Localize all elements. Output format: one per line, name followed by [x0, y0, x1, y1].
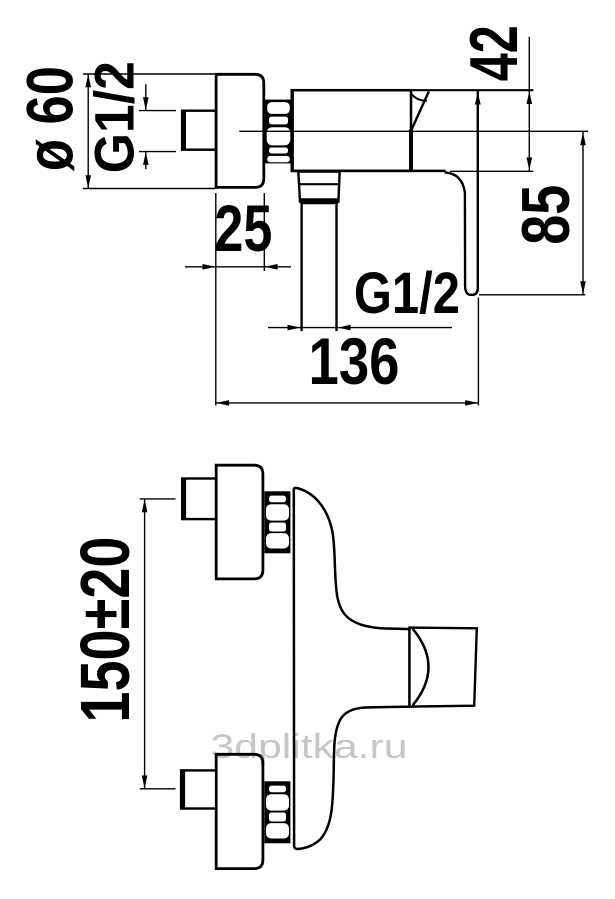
handle (front) — [410, 628, 477, 707]
dim 136 arrow right — [465, 400, 478, 406]
handle lever (side) — [445, 90, 478, 294]
svg-text:G1/2: G1/2 — [83, 61, 146, 173]
handle pivot fillet arc — [411, 93, 427, 101]
outlet nut thick bottom band — [300, 198, 339, 204]
dim 85 line — [582, 132, 584, 295]
outlet pipe left line — [300, 204, 302, 331]
svg-text:G1/2: G1/2 — [354, 261, 460, 326]
dim G1/2 wall arrow down — [143, 97, 149, 110]
wall flange (side) — [216, 74, 264, 187]
handle rear edge arrow mark — [475, 92, 481, 104]
outlet nut division line — [299, 183, 339, 185]
faucet body (side) — [292, 90, 411, 171]
wall flange upper (front) — [216, 465, 263, 579]
svg-text:136: 136 — [309, 324, 400, 398]
dim 25 arrow left — [265, 264, 278, 270]
dim 85 arrow down — [580, 281, 586, 294]
dim 136 extension right — [477, 298, 479, 406]
body left edge thick — [291, 89, 294, 172]
outlet nut (side) — [298, 172, 339, 202]
dim ø60 arrow up — [85, 74, 91, 87]
dim 25 line — [185, 266, 291, 268]
dim 42 arrow up — [527, 91, 533, 104]
wall flange lower (front) — [216, 754, 263, 868]
dim G1/2 wall thread extension top — [139, 110, 176, 112]
handle pivot slant — [412, 92, 429, 130]
body bottom extension line — [450, 170, 533, 172]
dim G1/2 outlet line — [268, 327, 452, 329]
supply stub lower thick left edge — [181, 770, 185, 810]
dim G1/2 wall thread line lower — [145, 152, 147, 170]
connector nut (side) — [264, 100, 292, 164]
svg-text:ø 60: ø 60 — [12, 66, 86, 171]
dim 136 line — [216, 402, 479, 404]
dim 42 line — [528, 37, 530, 171]
dim G1/2 wall arrow up — [143, 152, 149, 165]
handle cap arc (front) — [413, 629, 429, 705]
connector nut upper (front) — [265, 491, 291, 553]
dim 150 extension tick top — [140, 498, 176, 500]
dim G1/2 wall thread line upper — [145, 84, 147, 110]
dim ø60 extension line top — [83, 73, 215, 75]
dim 150 line — [144, 499, 146, 789]
supply stub upper (front) — [182, 479, 216, 520]
supply stub upper thick left edge — [182, 478, 186, 520]
wall supply stub thick left edge — [182, 110, 186, 150]
faucet body (front) — [294, 488, 410, 849]
supply stub lower (front) — [181, 770, 216, 808]
dim G1/2 outlet arrow right — [288, 325, 301, 331]
body right edge thick lower part — [409, 130, 413, 171]
dim 150 extension tick bottom — [140, 788, 176, 790]
dim ø60 line — [87, 74, 89, 189]
svg-text:150±20: 150±20 — [66, 537, 144, 723]
dim G1/2 wall thread extension bottom — [139, 151, 176, 153]
wall supply stub (side) — [182, 111, 216, 150]
dim 42 arrow down — [527, 157, 533, 170]
dim 25 extension line A — [215, 193, 217, 406]
connector nut lower (front) — [265, 781, 291, 843]
svg-text:85: 85 — [508, 185, 584, 245]
dim 85 arrow up — [580, 132, 586, 145]
svg-text:25: 25 — [214, 191, 272, 265]
dim 136 arrow left — [216, 400, 229, 406]
dim ø60 extension line bottom — [83, 188, 215, 190]
dim G1/2 outlet arrow left — [338, 325, 351, 331]
outlet pipe right line — [335, 204, 337, 331]
dim 25 extension line B — [263, 193, 265, 271]
body bottom line to fillet — [292, 170, 445, 173]
svg-text:42: 42 — [456, 25, 532, 81]
dim 85 tip extension line — [479, 294, 585, 296]
body top line extended to 42 dim — [292, 89, 533, 91]
dim 150 arrow up — [142, 499, 148, 512]
svg-text:3dplitka.ru: 3dplitka.ru — [211, 728, 408, 766]
dim 25 arrow right — [203, 264, 216, 270]
center line — [239, 130, 588, 132]
dim 150 arrow down — [142, 776, 148, 789]
dim ø60 arrow down — [85, 175, 91, 188]
